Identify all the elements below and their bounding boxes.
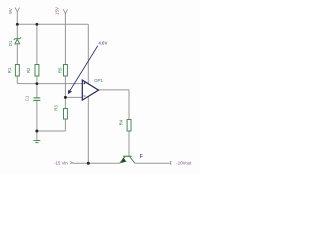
wire bottom mid horizontal (R3/C1 to ground node) <box>37 130 66 132</box>
wire bottom rail left segment <box>73 162 120 164</box>
port arrow input left <box>70 161 72 164</box>
15V supply arrow <box>63 9 67 13</box>
svg-text:R3: R3 <box>54 105 59 111</box>
svg-text:OP1: OP1 <box>94 78 104 83</box>
svg-text:-15 Vin: -15 Vin <box>54 161 68 166</box>
wire - input row <box>65 96 82 98</box>
resistor R2 (column 2) <box>35 65 39 77</box>
resistor R5 (column 3) <box>64 65 68 77</box>
port bracket output right <box>170 162 171 165</box>
zener diode D1 <box>14 37 21 44</box>
wire right vertical drop from bus corner down to bottom rail <box>87 24 89 163</box>
transistor emitter arrow <box>121 158 127 164</box>
svg-text:R4: R4 <box>119 119 124 125</box>
annotation arrowhead <box>68 90 72 94</box>
wire column 3 (15V down through divider) <box>64 14 66 132</box>
op-amp OP1 <box>82 80 98 100</box>
wire R4 column down to transistor base <box>128 90 130 156</box>
svg-text:F: F <box>140 154 143 160</box>
wire column 2 lower (below C1) <box>36 100 38 140</box>
annotation 4.6V pointer line <box>69 46 98 92</box>
wire lower bus to + input <box>17 83 82 85</box>
svg-text:R1: R1 <box>7 67 12 73</box>
svg-text:R5: R5 <box>57 67 62 73</box>
svg-text:C1: C1 <box>25 95 30 101</box>
resistor R1 (column 1) <box>15 65 19 77</box>
svg-text:15V: 15V <box>55 6 60 15</box>
wire top bus 9V <box>17 23 88 25</box>
svg-text:D1: D1 <box>8 40 13 46</box>
svg-text:4.6V: 4.6V <box>98 40 107 45</box>
capacitor C1 <box>33 98 40 101</box>
svg-text:R2: R2 <box>26 67 31 73</box>
wire op-amp output row <box>99 89 130 91</box>
resistor R3 (divider lower) <box>64 109 68 120</box>
svg-text:-10Vout: -10Vout <box>176 160 192 165</box>
wire column 1 (9V to lower bus) <box>16 12 18 84</box>
wire bottom rail right segment <box>135 162 170 164</box>
9V supply arrow <box>15 8 19 12</box>
transistor T1 <box>123 155 131 157</box>
svg-text:9V: 9V <box>8 7 13 14</box>
junction node dots <box>16 23 90 165</box>
wire column 2 upper <box>36 24 38 98</box>
resistor R4 (output) <box>127 120 131 132</box>
ground <box>34 141 41 143</box>
